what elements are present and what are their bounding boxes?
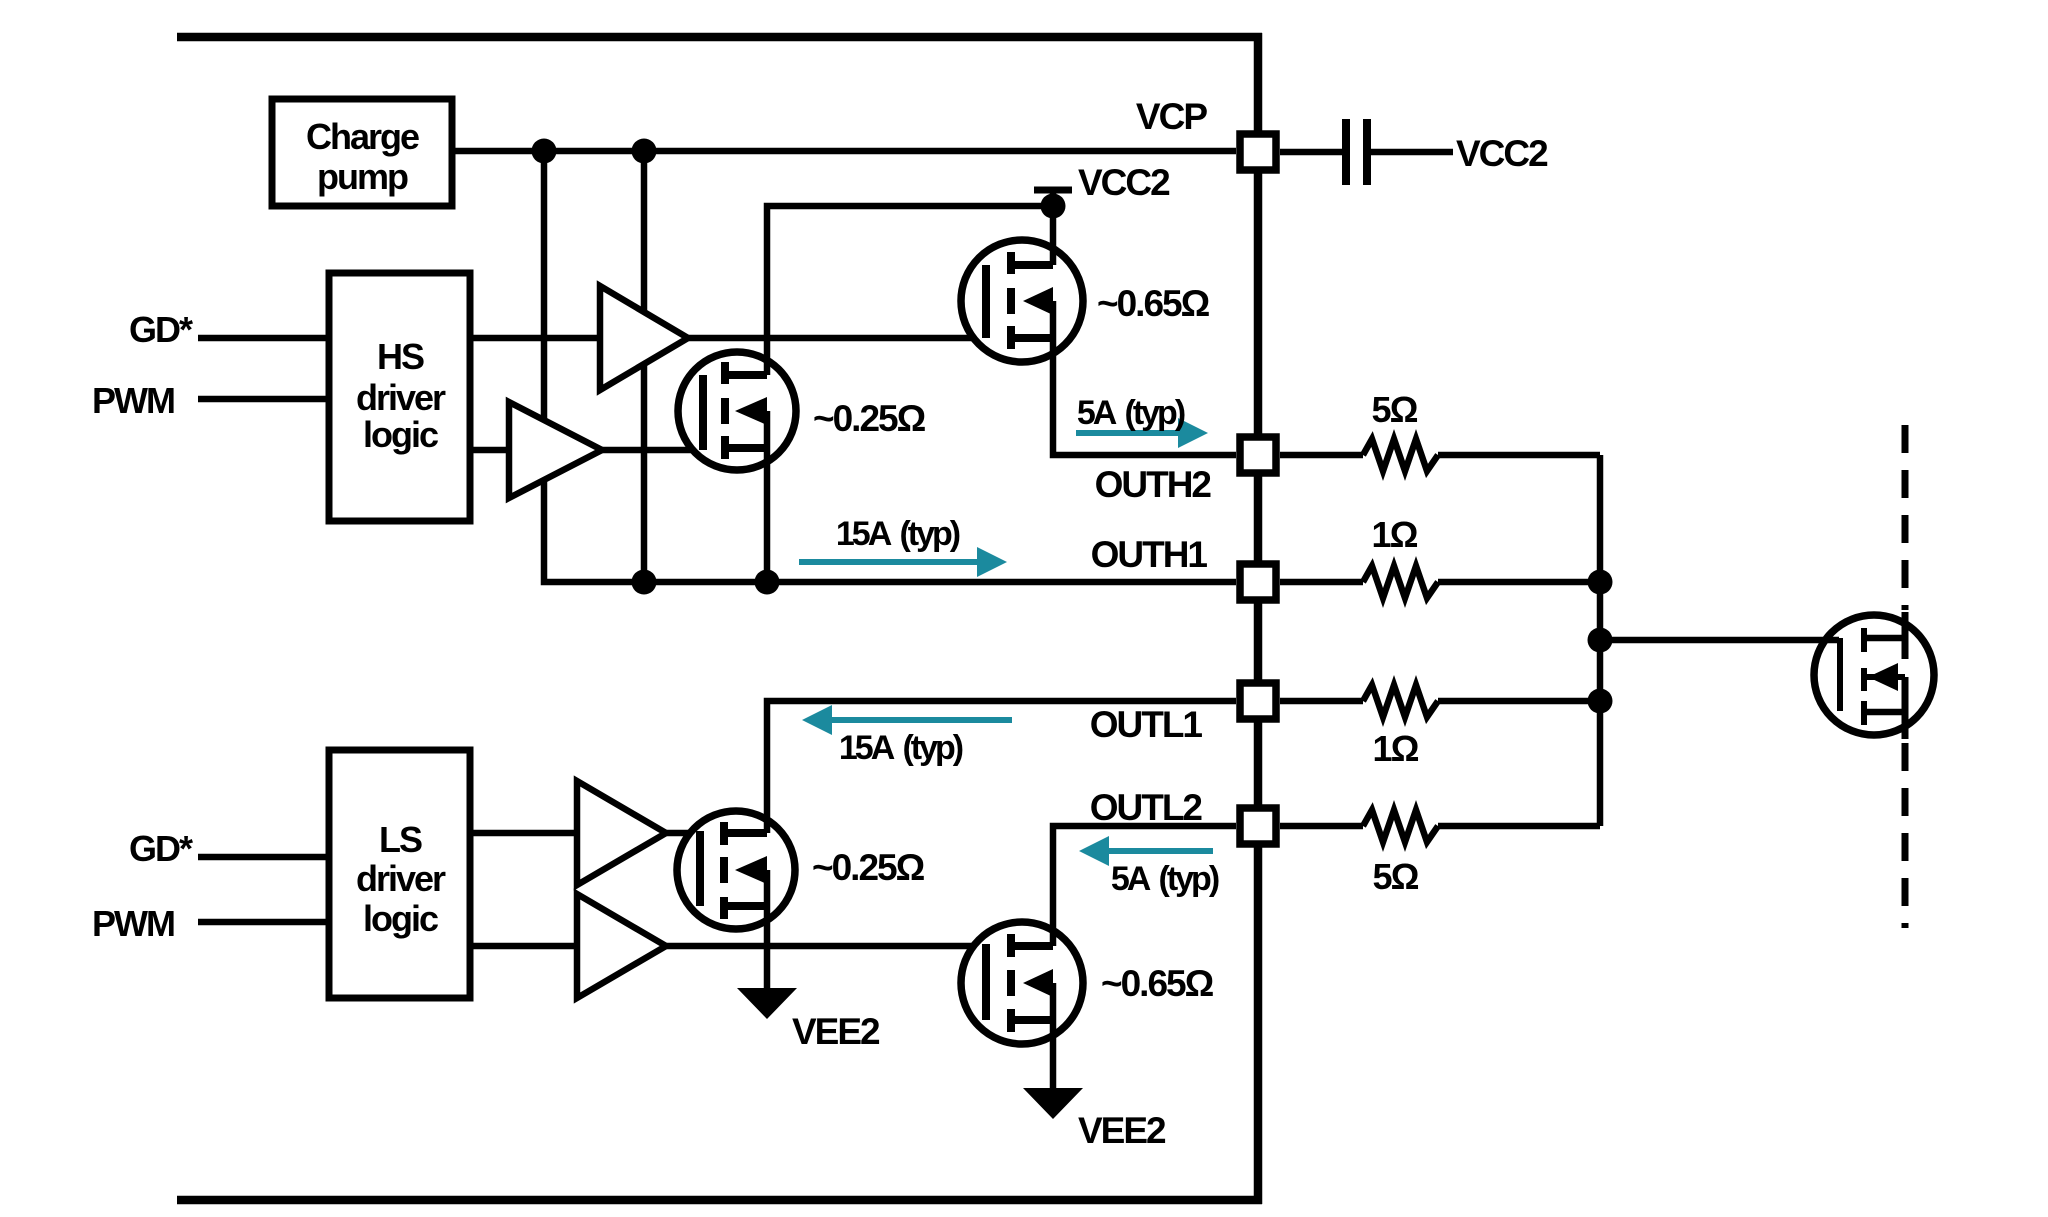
wire LS logic to buffer B2 bbox=[472, 943, 577, 950]
svg-text:VCC2: VCC2 bbox=[1078, 162, 1170, 203]
box HS driver logic bbox=[329, 273, 470, 521]
wire GD* input to HS driver logic bbox=[198, 335, 327, 342]
buffer A2 (HS lower) bbox=[509, 402, 602, 498]
current arrow 5A OUTH2 bbox=[1076, 418, 1208, 448]
svg-text:driver: driver bbox=[356, 858, 446, 899]
wire PWM input to HS driver logic bbox=[198, 396, 327, 403]
current arrow 15A OUTH1 bbox=[799, 547, 1007, 577]
wire bottom border bbox=[177, 1196, 1262, 1205]
ground VEE2 (Q3 source) bbox=[737, 988, 797, 1019]
capacitor C1 plates bbox=[1280, 149, 1342, 156]
wire buffer B1 output to Q3 gate bbox=[666, 830, 700, 837]
pin OUTL1 bbox=[1240, 683, 1276, 719]
svg-text:Charge: Charge bbox=[306, 116, 419, 157]
box charge pump bbox=[272, 99, 452, 206]
wire PWM input to LS driver logic bbox=[198, 919, 327, 926]
svg-text:logic: logic bbox=[363, 898, 438, 939]
buffer A1 (HS upper) bbox=[600, 286, 688, 390]
svg-text:HS: HS bbox=[377, 336, 424, 377]
power VCC2 supply stub (HS) bbox=[1050, 190, 1057, 206]
wire right bus bbox=[1254, 33, 1263, 1204]
svg-text:OUTH2: OUTH2 bbox=[1095, 464, 1212, 505]
svg-text:VEE2: VEE2 bbox=[792, 1011, 880, 1052]
resistor R1 (5 ohm OUTH2) bbox=[1280, 452, 1363, 459]
buffer B2 (LS lower) bbox=[577, 894, 666, 998]
node dot summing OUTH1 bbox=[1588, 570, 1613, 595]
svg-text:~0.25Ω: ~0.25Ω bbox=[813, 398, 926, 439]
svg-text:VEE2: VEE2 bbox=[1078, 1110, 1166, 1151]
pin OUTH1 bbox=[1240, 564, 1276, 600]
svg-text:~0.25Ω: ~0.25Ω bbox=[812, 847, 925, 888]
wire LS logic to buffer B1 bbox=[472, 830, 577, 837]
wire top border bbox=[177, 33, 1262, 42]
resistor R2 (1 ohm OUTH1) bbox=[1280, 579, 1363, 586]
pin OUTL2 bbox=[1240, 808, 1276, 844]
buffer B1 (LS upper) bbox=[577, 781, 666, 885]
wire vertical rail from charge pump node B down to OUTH1 bbox=[641, 151, 648, 582]
wire HS logic to buffer A1 bbox=[472, 335, 600, 342]
wire dashed external drain line bbox=[1902, 425, 1909, 610]
node dot summing gate bbox=[1588, 628, 1613, 653]
svg-text:VCP: VCP bbox=[1136, 96, 1207, 137]
svg-text:LS: LS bbox=[379, 819, 422, 860]
node dot OUTH1 rail B bbox=[632, 570, 657, 595]
wire right summing rail bbox=[1597, 455, 1604, 826]
wire charge pump output to VCP pin bbox=[454, 148, 1236, 155]
wire buffer A2 output to Q1 gate bbox=[602, 447, 703, 454]
svg-text:1Ω: 1Ω bbox=[1373, 728, 1419, 769]
svg-text:5Ω: 5Ω bbox=[1373, 856, 1419, 897]
current arrow 5A OUTL2 bbox=[1079, 836, 1213, 866]
svg-text:5A (typ): 5A (typ) bbox=[1111, 860, 1219, 898]
resistor R4 (5 ohm OUTL2) bbox=[1280, 823, 1363, 830]
svg-text:5Ω: 5Ω bbox=[1372, 389, 1418, 430]
pin VCP bbox=[1240, 134, 1276, 170]
node dot charge pump B bbox=[632, 139, 657, 164]
node dot OUTH1 Q1 source bbox=[755, 570, 780, 595]
wire buffer B2 output to Q4 gate bbox=[666, 943, 986, 950]
svg-text:OUTL2: OUTL2 bbox=[1090, 787, 1203, 828]
svg-text:~0.65Ω: ~0.65Ω bbox=[1097, 283, 1210, 324]
wire GD* input to LS driver logic bbox=[198, 854, 327, 861]
pin OUTH2 bbox=[1240, 437, 1276, 473]
node dot charge pump A bbox=[532, 139, 557, 164]
svg-text:PWM: PWM bbox=[92, 380, 174, 421]
svg-text:GD*: GD* bbox=[129, 828, 193, 869]
svg-text:PWM: PWM bbox=[92, 903, 174, 944]
svg-text:VCC2: VCC2 bbox=[1456, 133, 1548, 174]
transistor Q1 (HS ~0.25 ohm) bbox=[678, 352, 796, 470]
svg-text:15A (typ): 15A (typ) bbox=[836, 515, 960, 553]
svg-text:1Ω: 1Ω bbox=[1372, 514, 1418, 555]
box LS driver logic bbox=[329, 750, 470, 998]
wire dashed external source line bbox=[1902, 743, 1909, 928]
svg-text:~0.65Ω: ~0.65Ω bbox=[1101, 963, 1214, 1004]
node dot VCC2 junction bbox=[1041, 194, 1066, 219]
svg-text:GD*: GD* bbox=[129, 309, 193, 350]
current arrow 15A OUTL1 bbox=[802, 705, 1012, 735]
svg-text:logic: logic bbox=[363, 414, 438, 455]
wire HS logic to buffer A2 bbox=[472, 447, 509, 454]
svg-text:driver: driver bbox=[356, 377, 446, 418]
wire gate node to external MOSFET bbox=[1600, 637, 1839, 644]
svg-text:pump: pump bbox=[317, 156, 408, 197]
ground VEE2 (Q4 source) bbox=[1023, 1088, 1083, 1119]
wire vertical rail from charge pump node A down to OUTH1 bbox=[544, 151, 1236, 582]
transistor Q3 (LS ~0.25 ohm) bbox=[677, 811, 795, 929]
svg-text:15A (typ): 15A (typ) bbox=[839, 729, 963, 767]
wire buffer A1 output to Q2 gate bbox=[688, 335, 986, 342]
transistor Q4 (LS ~0.65 ohm) bbox=[961, 922, 1083, 1044]
svg-text:OUTL1: OUTL1 bbox=[1090, 704, 1203, 745]
node dot summing OUTL1 bbox=[1588, 689, 1613, 714]
transistor Q2 (HS ~0.65 ohm) bbox=[961, 240, 1083, 362]
transistor Q5 (external power MOSFET) bbox=[1814, 615, 1934, 735]
svg-text:OUTH1: OUTH1 bbox=[1091, 534, 1208, 575]
svg-text:5A (typ): 5A (typ) bbox=[1077, 394, 1185, 432]
resistor R3 (1 ohm OUTL1) bbox=[1280, 698, 1363, 705]
